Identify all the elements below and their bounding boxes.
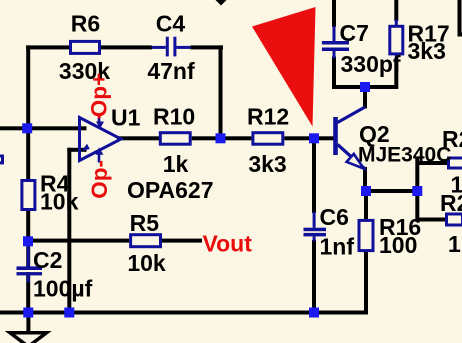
svg-text:C7: C7 xyxy=(340,20,369,46)
svg-text:100µf: 100µf xyxy=(33,276,93,302)
svg-text:C2: C2 xyxy=(33,247,62,273)
svg-text:R6: R6 xyxy=(71,11,100,37)
svg-text:MJE340C: MJE340C xyxy=(358,143,451,166)
svg-text:10k: 10k xyxy=(40,188,79,214)
svg-text:Vout: Vout xyxy=(203,231,253,257)
svg-text:R10: R10 xyxy=(153,103,195,129)
svg-text:R2: R2 xyxy=(440,190,462,216)
svg-text:3k3: 3k3 xyxy=(408,38,446,64)
svg-text:330pf: 330pf xyxy=(341,51,401,77)
svg-text:1nf: 1nf xyxy=(320,234,355,260)
svg-text:R5: R5 xyxy=(130,210,160,236)
svg-text:100: 100 xyxy=(379,232,417,258)
svg-text:C6: C6 xyxy=(320,204,349,230)
svg-text:3k3: 3k3 xyxy=(248,151,286,177)
svg-text:Op-: Op- xyxy=(87,160,112,199)
svg-text:Op+: Op+ xyxy=(87,73,112,117)
svg-text:U1: U1 xyxy=(111,105,141,131)
svg-text:R12: R12 xyxy=(247,103,289,129)
svg-text:OPA627: OPA627 xyxy=(127,177,214,203)
svg-text:1: 1 xyxy=(448,231,461,257)
svg-text:10k: 10k xyxy=(127,250,166,276)
svg-text:R2: R2 xyxy=(442,126,462,152)
svg-text:C4: C4 xyxy=(156,10,186,36)
svg-text:47nf: 47nf xyxy=(147,58,195,84)
svg-text:1k: 1k xyxy=(163,151,189,177)
